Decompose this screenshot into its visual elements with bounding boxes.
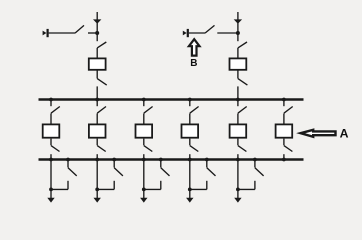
wire: feeder 1 to breaker bbox=[50, 113, 52, 124]
node: load 5 junction bbox=[236, 188, 240, 192]
wire: incomer 1 to breaker bbox=[96, 48, 98, 58]
feeder bay 3 (switch-breaker-switch) bbox=[136, 98, 153, 162]
wire: feeder 2 stub to lower busbar bbox=[96, 154, 98, 159]
node: load 4 junction bbox=[188, 188, 192, 192]
wire: feeder 3 stub to lower busbar bbox=[143, 154, 145, 159]
upper busbar (main bus) bbox=[39, 98, 304, 100]
node: feeder 1 junction on upper busbar bbox=[49, 98, 53, 102]
disconnect switch blade (feeder 1 upper) bbox=[51, 107, 60, 114]
wire: feeder 3 stub below upper busbar bbox=[143, 100, 145, 107]
node: feeder 4 junction on lower busbar bbox=[188, 158, 192, 162]
load bay 5 with bypass switch bbox=[234, 158, 263, 203]
wire: feeder 6 stub to lower busbar bbox=[283, 154, 285, 159]
wire: feeder 5 stub to lower busbar bbox=[237, 154, 239, 159]
disconnect switch blade (feeder 6 lower) bbox=[284, 146, 293, 152]
node: feeder 1 junction on lower busbar bbox=[49, 158, 53, 162]
feeder bay 5 (switch-breaker-switch) bbox=[230, 98, 247, 162]
incomer 1 circuit breaker (rect) bbox=[89, 58, 106, 69]
disconnect switch blade (incomer 2 lower) bbox=[238, 79, 248, 86]
wire: bypass switch 3 upper stub bbox=[160, 160, 162, 168]
disconnect switch blade (feeder 3 upper) bbox=[144, 107, 153, 114]
disconnect switch blade (tie feeder 1) bbox=[75, 25, 84, 33]
wire: load 1 main drop bbox=[50, 160, 52, 199]
feeder 6 circuit breaker (rect) bbox=[276, 124, 293, 137]
wire: feeder 6 stub below upper busbar bbox=[283, 100, 285, 107]
node: feeder 6 junction on lower busbar bbox=[282, 158, 286, 162]
disconnect switch blade (bypass 5) bbox=[255, 168, 264, 176]
wire: feeder 5 stub below upper busbar bbox=[237, 100, 239, 107]
node: bypass switch 2 tap on lower busbar bbox=[112, 158, 116, 162]
wire: feeder 2 to breaker bbox=[96, 113, 98, 124]
wire: feeder 5 to breaker bbox=[237, 113, 239, 124]
tie feeder 2 terminal bar bbox=[187, 29, 189, 37]
feeder 4 circuit breaker (rect) bbox=[182, 124, 199, 137]
disconnect switch blade (feeder 5 upper) bbox=[238, 107, 247, 114]
wire: feeder 2 stub below upper busbar bbox=[96, 100, 98, 107]
wire: tie feeder 2 left segment bbox=[189, 32, 205, 34]
wire: feeder 6 below breaker bbox=[283, 139, 285, 146]
node: incomer 2 tap junction bbox=[236, 31, 240, 35]
load bay 1 with bypass switch bbox=[47, 158, 76, 203]
wire: feeder 4 stub to lower busbar bbox=[189, 154, 191, 159]
node: feeder 4 junction on upper busbar bbox=[188, 98, 192, 102]
wire: bypass 2 connector to load drop bbox=[97, 188, 114, 190]
disconnect switch blade (tie feeder 2) bbox=[205, 25, 215, 33]
node: incomer 1 tap junction bbox=[95, 31, 99, 35]
wire: feeder 2 below breaker bbox=[96, 139, 98, 146]
incomer 1 flow arrow (down) bbox=[93, 19, 101, 23]
wire: tie feeder 2 right segment bbox=[217, 32, 238, 34]
wire: bypass switch 1 lower stub bbox=[67, 181, 69, 190]
wire: incomer 2 stub to upper busbar bbox=[237, 86, 239, 99]
wire: feeder 4 stub below upper busbar bbox=[189, 100, 191, 107]
wire: load 2 main drop bbox=[96, 160, 98, 199]
svg-text:A: A bbox=[340, 127, 349, 141]
wire: bypass switch 5 upper stub bbox=[254, 160, 256, 168]
wire: bypass 5 connector to load drop bbox=[238, 188, 255, 190]
wire: bypass switch 4 lower stub bbox=[206, 181, 208, 190]
wire: bypass 1 connector to load drop bbox=[51, 188, 68, 190]
tie feeder 1 terminal arrow bbox=[43, 31, 47, 36]
wire: incomer 1 stub below tap bbox=[96, 33, 98, 41]
incomer 2 flow arrow (down) bbox=[234, 19, 242, 23]
feeder bay 1 (switch-breaker-switch) bbox=[43, 98, 60, 162]
wire: bypass switch 2 lower stub bbox=[113, 181, 115, 190]
callout block arrow A (left, points at feeder 6 breaker) bbox=[301, 130, 336, 137]
disconnect switch blade (incomer 1 lower) bbox=[97, 79, 107, 86]
lower busbar (secondary bus) bbox=[39, 158, 304, 160]
callout block arrow B (up) bbox=[189, 39, 200, 55]
wire: bypass switch 1 upper stub bbox=[67, 160, 69, 168]
load 5 outgoing arrow (down) bbox=[234, 198, 241, 203]
wire: bypass switch 3 lower stub bbox=[160, 181, 162, 190]
node: load 2 junction bbox=[95, 188, 99, 192]
disconnect switch blade (feeder 5 lower) bbox=[238, 146, 247, 152]
wire: bypass switch 4 upper stub bbox=[206, 160, 208, 168]
node: bypass switch 1 tap on lower busbar bbox=[66, 158, 70, 162]
disconnect switch blade (bypass 1) bbox=[68, 168, 77, 176]
svg-text:B: B bbox=[190, 58, 197, 69]
wire: incomer 1 stub to upper busbar bbox=[96, 86, 98, 99]
wire: bypass 4 connector to load drop bbox=[190, 188, 207, 190]
load bay 2 with bypass switch bbox=[94, 158, 123, 203]
disconnect switch blade (bypass 3) bbox=[161, 168, 170, 176]
load bay 4 with bypass switch bbox=[186, 158, 215, 203]
feeder 1 circuit breaker (rect) bbox=[43, 124, 60, 137]
wire: incomer 2 to breaker bbox=[237, 48, 239, 58]
feeder 5 circuit breaker (rect) bbox=[230, 124, 247, 137]
node: feeder 2 junction on upper busbar bbox=[95, 98, 99, 102]
wire: tie feeder 1 right segment bbox=[88, 32, 97, 34]
wire: feeder 4 to breaker bbox=[189, 113, 191, 124]
node: load 1 junction bbox=[49, 188, 53, 192]
node: feeder 6 junction on upper busbar bbox=[282, 98, 286, 102]
wire: feeder 1 stub to lower busbar bbox=[50, 154, 52, 159]
wire: feeder 6 to breaker bbox=[283, 113, 285, 124]
node: feeder 5 junction on lower busbar bbox=[236, 158, 240, 162]
tie feeder 2 terminal arrow bbox=[183, 31, 187, 36]
wire: incomer 1 below breaker bbox=[96, 70, 98, 78]
feeder bay 4 (switch-breaker-switch) bbox=[182, 98, 199, 162]
disconnect switch blade (bypass 2) bbox=[114, 168, 123, 176]
wire: load 4 main drop bbox=[189, 160, 191, 199]
wire: load 5 main drop bbox=[237, 160, 239, 199]
wire: feeder 4 below breaker bbox=[189, 139, 191, 146]
load 2 outgoing arrow (down) bbox=[94, 198, 101, 203]
load 1 outgoing arrow (down) bbox=[47, 198, 54, 203]
wire: bypass switch 2 upper stub bbox=[113, 160, 115, 168]
wire: incomer 2 below breaker bbox=[237, 70, 239, 78]
node: bypass switch 4 tap on lower busbar bbox=[205, 158, 209, 162]
disconnect switch blade (feeder 2 upper) bbox=[97, 107, 106, 114]
node: bypass switch 3 tap on lower busbar bbox=[159, 158, 163, 162]
disconnect switch blade (feeder 3 lower) bbox=[144, 146, 153, 152]
wire: bypass 3 connector to load drop bbox=[144, 188, 161, 190]
wire: feeder 5 below breaker bbox=[237, 139, 239, 146]
load bay 3 with bypass switch bbox=[140, 158, 169, 203]
wire: feeder 1 below breaker bbox=[50, 139, 52, 146]
tie feeder 1 terminal bar bbox=[46, 29, 48, 37]
node: feeder 3 junction on upper busbar bbox=[142, 98, 146, 102]
feeder 3 circuit breaker (rect) bbox=[136, 124, 153, 137]
disconnect switch blade (feeder 6 upper) bbox=[284, 107, 293, 114]
node: load 3 junction bbox=[142, 188, 146, 192]
wire: feeder 3 to breaker bbox=[143, 113, 145, 124]
incomer 2 circuit breaker (rect) bbox=[230, 58, 247, 69]
feeder bay 2 (switch-breaker-switch) bbox=[89, 98, 106, 162]
node: feeder 2 junction on lower busbar bbox=[95, 158, 99, 162]
disconnect switch blade (incomer 1 upper) bbox=[97, 42, 106, 48]
disconnect switch blade (feeder 2 lower) bbox=[97, 146, 106, 152]
disconnect switch blade (feeder 1 lower) bbox=[51, 146, 60, 152]
feeder bay 6 (switch-breaker-switch) bbox=[276, 98, 293, 162]
incomer 1 supply line bbox=[96, 12, 98, 33]
disconnect switch blade (incomer 2 upper) bbox=[238, 42, 247, 48]
load 4 outgoing arrow (down) bbox=[186, 198, 193, 203]
node: bypass switch 5 tap on lower busbar bbox=[253, 158, 257, 162]
node: feeder 5 junction on upper busbar bbox=[236, 98, 240, 102]
load 3 outgoing arrow (down) bbox=[140, 198, 147, 203]
feeder 2 circuit breaker (rect) bbox=[89, 124, 106, 137]
wire: feeder 1 stub below upper busbar bbox=[50, 100, 52, 107]
wire: incomer 2 stub below tap bbox=[237, 33, 239, 41]
wire: tie feeder 1 left segment bbox=[49, 32, 75, 34]
disconnect switch blade (feeder 4 lower) bbox=[190, 146, 199, 152]
node: feeder 3 junction on lower busbar bbox=[142, 158, 146, 162]
wire: load 3 main drop bbox=[143, 160, 145, 199]
wire: feeder 3 below breaker bbox=[143, 139, 145, 146]
disconnect switch blade (feeder 4 upper) bbox=[190, 107, 199, 114]
incomer 2 supply line bbox=[237, 12, 239, 33]
disconnect switch blade (bypass 4) bbox=[207, 168, 216, 176]
wire: bypass switch 5 lower stub bbox=[254, 181, 256, 190]
